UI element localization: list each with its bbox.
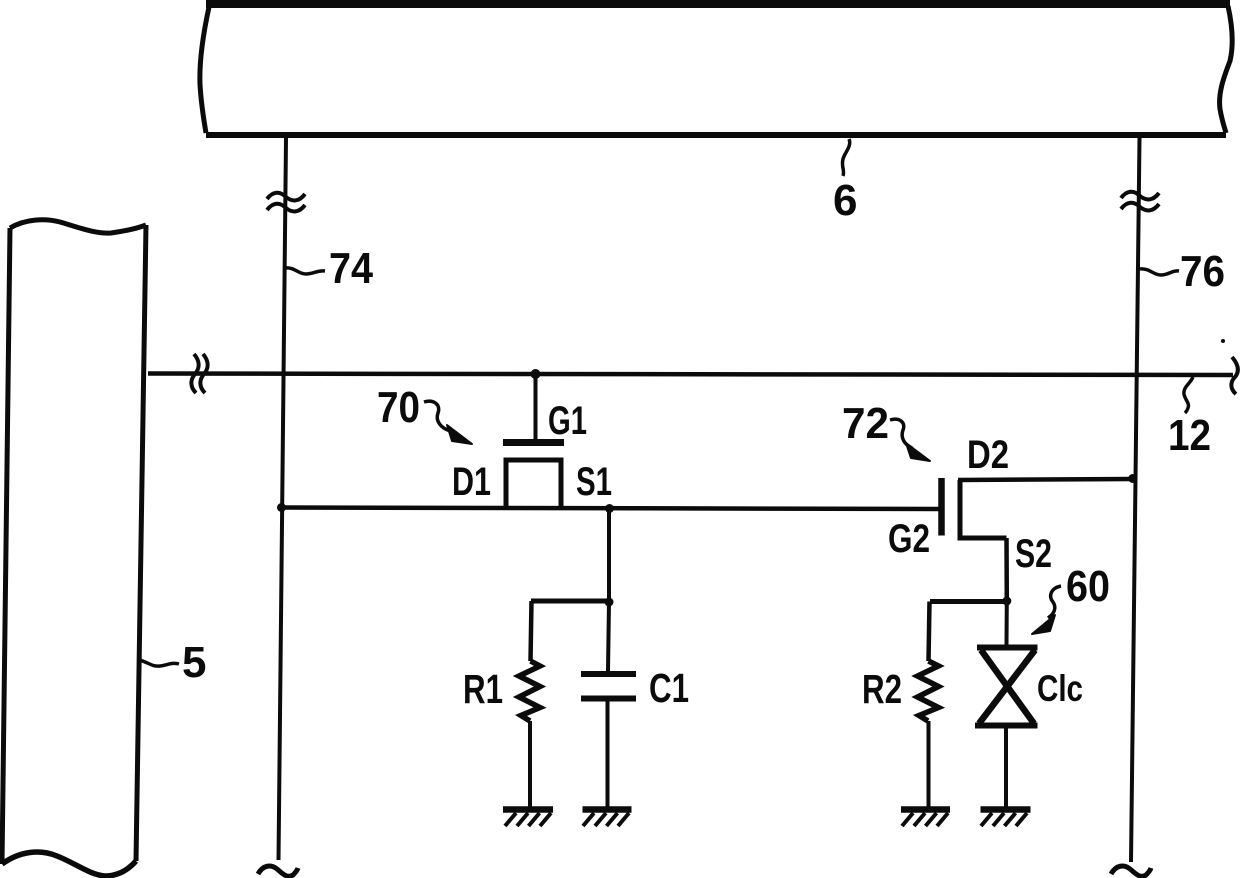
svg-text:5: 5	[182, 638, 206, 687]
ground (R1)	[503, 810, 553, 827]
node: G1 tap junction on wire 12	[531, 369, 541, 379]
node: storage node junction (R1/C1)	[605, 598, 614, 607]
wire 12 (horizontal scanning line)	[148, 374, 1233, 376]
svg-text:74: 74	[329, 244, 373, 293]
svg-text:C1: C1	[649, 665, 689, 711]
data line bus 6 (top electrode bar)	[200, 4, 1232, 135]
svg-text:S1: S1	[576, 460, 612, 504]
wire 74 break symbol	[267, 193, 305, 212]
wire 76 (vertical gate line, right)	[1131, 138, 1140, 862]
transistor 70 channel hat	[506, 460, 561, 507]
svg-text:D2: D2	[967, 433, 1009, 477]
svg-text:R2: R2	[862, 666, 902, 712]
wire 76 bottom wavy end	[1111, 866, 1151, 876]
svg-text:R1: R1	[463, 666, 503, 712]
label 12 leader squiggle	[1184, 377, 1193, 413]
wire: Clc bottom lead	[1004, 728, 1008, 807]
wire: across to R2 branch	[930, 599, 1007, 604]
svg-text:D1: D1	[452, 460, 491, 504]
svg-text:S2: S2	[1015, 532, 1052, 576]
svg-text:Clc: Clc	[1037, 668, 1083, 709]
ground (R2)	[901, 810, 950, 827]
transistor 72 channel hat (rotated)	[960, 480, 1007, 538]
label 76 leader tick	[1140, 269, 1179, 275]
capacitor C1	[581, 674, 636, 699]
svg-text:G2: G2	[888, 517, 930, 561]
leader arrow for 70	[424, 401, 472, 444]
node: junction of D1 wire with wire 74	[277, 503, 286, 512]
wire 76 break symbol	[1121, 192, 1159, 211]
svg-text:12: 12	[1168, 411, 1211, 460]
wire: R1 top lead	[531, 601, 532, 661]
svg-text:76: 76	[1180, 247, 1225, 296]
scanning line bus 5 (left electrode bar)	[2, 220, 146, 876]
wire: G1 gate lead	[534, 374, 538, 440]
transistor 72 (TFT) gate bar (vertical)	[938, 478, 945, 536]
label 6 leader squiggle	[842, 139, 849, 176]
transistor 70 (TFT) gate bar	[503, 439, 564, 446]
resistor R1	[519, 661, 540, 721]
wire: C1 bottom lead	[606, 702, 610, 808]
wire 12 break symbol (left, near bus 5)	[191, 354, 207, 393]
wire: Clc top lead	[1005, 601, 1009, 645]
resistor R2	[918, 661, 939, 721]
wire: storage node across to R1 branch	[531, 599, 609, 604]
liquid crystal cell Clc (hourglass symbol)	[975, 648, 1038, 726]
ground (C1)	[583, 810, 632, 827]
leader arrow for 60	[1032, 586, 1061, 634]
node: S2 junction (R2/Clc)	[1002, 597, 1011, 606]
wire: drain D1 to source S1 row (from wire 74 to G2)	[281, 508, 941, 510]
label 74 leader tick	[285, 268, 325, 274]
leader arrow for 72	[890, 419, 930, 461]
wire: D2 lead to wire 76	[958, 479, 1133, 480]
node: S1 junction	[605, 504, 614, 513]
wire 74 bottom wavy end	[258, 866, 298, 876]
wire: C1 top lead	[608, 602, 609, 671]
label 5 leader squiggle	[139, 660, 179, 666]
wire: R2 bottom lead	[927, 721, 931, 807]
wire: S2 down lead	[1004, 538, 1009, 601]
svg-text:60: 60	[1066, 562, 1110, 611]
svg-text:6: 6	[833, 176, 857, 225]
wire: S1 down to storage node	[607, 509, 611, 603]
svg-text:G1: G1	[548, 399, 587, 443]
svg-text:70: 70	[377, 383, 420, 432]
node: D2 junction on wire 76	[1128, 474, 1137, 483]
svg-text:72: 72	[842, 399, 889, 448]
ground (Clc)	[981, 810, 1031, 827]
stray ink speck	[1221, 339, 1225, 343]
wire 74 (vertical gate line)	[279, 138, 287, 860]
wire 12 right wavy end	[1231, 357, 1237, 394]
wire: R2 top lead	[929, 602, 930, 662]
wire: R1 bottom lead	[528, 721, 532, 807]
